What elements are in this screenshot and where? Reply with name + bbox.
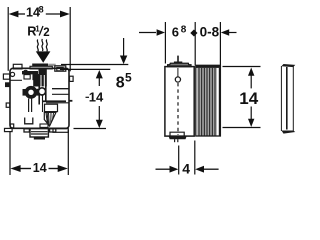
svg-text:14: 14	[33, 161, 47, 175]
svg-text:14: 14	[89, 90, 104, 105]
svg-text:2: 2	[43, 27, 49, 39]
svg-text:8: 8	[181, 25, 187, 36]
svg-text:8: 8	[116, 75, 125, 92]
svg-text:14: 14	[239, 89, 258, 108]
svg-text:1: 1	[35, 25, 40, 34]
svg-text:0-8: 0-8	[200, 25, 220, 40]
svg-text:5: 5	[125, 71, 132, 85]
svg-text:6: 6	[172, 25, 179, 40]
svg-text:8: 8	[39, 5, 44, 15]
svg-text:4: 4	[182, 160, 190, 176]
